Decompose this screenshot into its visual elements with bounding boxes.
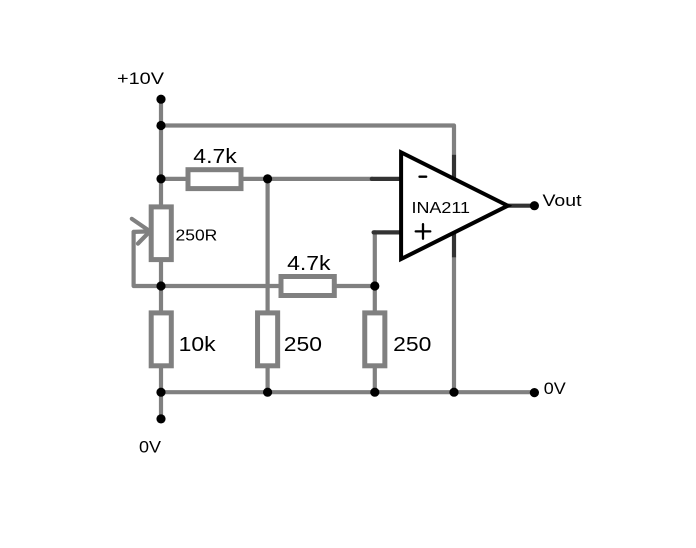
potentiometer RP 250R (vertical): [151, 207, 217, 260]
wire: R5 bottom to ground rail: [373, 366, 377, 392]
wire: potentiometer bottom to wiper rail node: [159, 262, 163, 287]
svg-text:Vout: Vout: [543, 191, 582, 210]
wire: R4 bottom to ground rail: [266, 366, 270, 392]
node: ground rail REF junction: [449, 388, 458, 397]
wire: node A to op-amp inverting input: [268, 177, 373, 181]
svg-text:0V: 0V: [544, 379, 567, 398]
wire: ground rail down to 0V terminal: [159, 392, 163, 419]
op-amp U1 pin stub: inverting input: [372, 177, 402, 181]
wire: op-amp REF column down to ground rail: [452, 257, 456, 392]
node A: R1 right junction: [263, 174, 272, 183]
wire: node B down to resistor R5: [373, 286, 377, 313]
resistor R1 4.7k (horizontal): [188, 146, 241, 189]
wire: R2 right lead to node B: [337, 284, 375, 288]
svg-text:250: 250: [393, 334, 431, 356]
wire: potentiometer wiper arm: [132, 219, 161, 286]
node: +10V terminal dot: [156, 95, 165, 104]
wire: node B up to op-amp non-inverting corner: [373, 232, 377, 286]
node: wiper rail junction: [156, 281, 165, 290]
wire: wiper node down to 10k resistor: [159, 286, 163, 313]
node: Vout terminal dot: [530, 201, 539, 210]
node: 0V right terminal dot: [530, 388, 539, 397]
wire: +10V terminal down into potentiometer top: [159, 99, 163, 206]
op-amp U1 triangle body: [401, 152, 508, 259]
svg-text:0V: 0V: [139, 437, 162, 456]
resistor R3 10k (vertical): [151, 313, 217, 366]
op-amp U1 pin stub: non-inverting input: [374, 230, 402, 234]
node: ground rail R4 junction: [263, 388, 272, 397]
svg-text:+10V: +10V: [117, 69, 165, 88]
wire: ground rail: [161, 390, 534, 394]
op-amp U1 plus symbol: [416, 224, 431, 239]
wire: 10k bottom to ground rail: [159, 366, 163, 392]
svg-text:250: 250: [284, 334, 322, 356]
resistor R2 4.7k (horizontal): [281, 253, 334, 295]
svg-text:4.7k: 4.7k: [193, 146, 238, 168]
wire: top supply rail over to op-amp V+ column: [161, 126, 454, 155]
op-amp U1 pin stub: REF (bottom): [452, 232, 456, 257]
op-amp U1 pin stub: output: [508, 204, 532, 208]
op-amp U1 pin stub: V+ supply (top): [452, 155, 456, 180]
wire: node A down to resistor R4: [266, 179, 270, 313]
wire: wiper rail to R2 left lead: [161, 284, 279, 288]
op-amp U1 minus symbol: [420, 176, 427, 178]
wire: left node to R1 left lead: [161, 177, 186, 181]
svg-text:10k: 10k: [179, 334, 217, 356]
svg-text:INA211: INA211: [412, 200, 471, 217]
node B: R2 right junction: [370, 281, 379, 290]
resistor R5 250 (vertical): [365, 313, 432, 366]
svg-text:4.7k: 4.7k: [287, 253, 332, 275]
node: ground rail left junction: [156, 388, 165, 397]
node: R1 left junction: [156, 174, 165, 183]
wire: R1 right lead to node A: [243, 177, 267, 181]
resistor R4 250 (vertical): [258, 313, 322, 366]
node: ground rail R5 junction: [370, 388, 379, 397]
node: top rail junction: [156, 121, 165, 130]
svg-text:250R: 250R: [176, 227, 218, 244]
node: 0V bottom terminal dot: [156, 414, 165, 423]
